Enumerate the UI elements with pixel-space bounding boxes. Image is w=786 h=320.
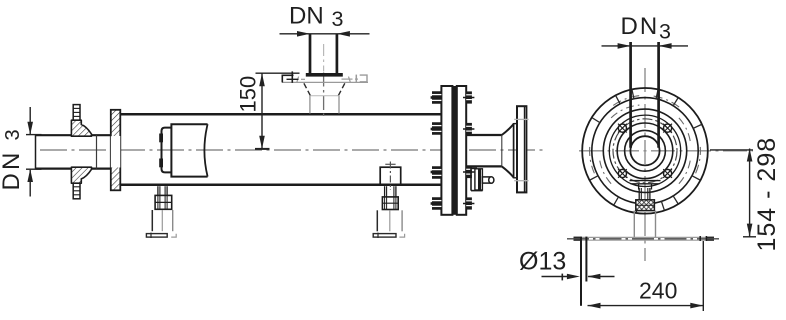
right nozzle pipe N3 — [466, 135, 502, 166]
drain fitting plug — [482, 177, 494, 184]
baseplate hole left (O13) — [581, 237, 586, 306]
svg-text:DN: DN — [0, 149, 25, 190]
svg-text:DN: DN — [289, 3, 324, 30]
flange bolt row 4 right nut — [463, 197, 474, 209]
svg-text:154 - 298: 154 - 298 — [753, 137, 781, 252]
label DN 3 (left, rotated) — [0, 129, 25, 190]
flange bolt row 3 left nut — [431, 166, 442, 179]
svg-text:3: 3 — [2, 129, 24, 140]
girth flange gasket joint — [452, 86, 456, 215]
svg-text:3: 3 — [332, 7, 344, 31]
flange bolt row 2 left nut — [431, 122, 442, 135]
top nozzle centerline — [323, 44, 325, 120]
label 154 - 298 (rotated) — [753, 137, 781, 252]
bolt hole bottom-left — [618, 169, 627, 178]
phantom circle r55 (partial arcs) — [590, 96, 701, 174]
support leg 2 foot — [373, 233, 404, 238]
end view top nozzle pipe — [631, 42, 659, 148]
label DN 3 (end view) — [621, 13, 672, 44]
top nozzle neck (phantom) — [310, 96, 339, 114]
vessel shell bottom wall — [118, 184, 442, 187]
drain fitting bracket — [471, 166, 483, 190]
svg-text:DN: DN — [621, 13, 660, 40]
baseplate — [567, 237, 721, 241]
flange bolt row 2 right nut — [463, 123, 474, 135]
inner circle 2 — [625, 130, 666, 171]
dimension DN 3 (top nozzle) — [280, 31, 370, 37]
internal insert body — [171, 124, 207, 176]
end view vertical centerline — [644, 68, 646, 261]
top nozzle hub cone (hidden lines) — [304, 83, 345, 95]
phantom circle r45 (partial arcs) — [599, 105, 690, 184]
girth flange pair left plate — [441, 86, 452, 215]
end view leg tube — [634, 211, 655, 237]
left nozzle pipe N1 — [36, 134, 112, 169]
dimension DN 3 (left nozzle) — [26, 107, 42, 197]
end view leg nut (cross hatched) — [636, 200, 655, 211]
hub circle — [603, 109, 686, 192]
label DN 3 (top nozzle) — [289, 3, 344, 32]
flange bolt row 1 left nut — [431, 91, 442, 104]
flange bolt row 1 right nut — [463, 91, 474, 103]
label 240 — [639, 277, 677, 303]
dimension DN 3 (end view) — [602, 43, 689, 49]
right nozzle hub cone — [502, 123, 517, 178]
internal insert left cap — [162, 128, 172, 173]
girth flange pair right plate — [457, 86, 466, 215]
support leg 2 adjuster nut — [382, 197, 398, 210]
top nozzle pipe N2 — [310, 34, 337, 73]
support leg 1 adjuster nut — [155, 195, 172, 209]
bolt boss circle — [609, 115, 680, 186]
dimension 154 - 298 — [710, 149, 756, 237]
svg-text:Ø13: Ø13 — [519, 248, 566, 276]
dimension 150 — [255, 73, 300, 149]
bottom connection chords — [630, 181, 661, 190]
internal insert left cap tabs — [159, 134, 163, 168]
support leg 1 tube — [152, 210, 172, 231]
top nozzle flange bolt (right, phantom) — [342, 75, 368, 83]
serration tick marks — [590, 90, 702, 213]
support leg 1 stud — [158, 186, 167, 195]
top nozzle flange plate — [282, 73, 368, 82]
end view horizontal centerline — [579, 150, 753, 152]
support leg 2 tube — [377, 210, 402, 231]
label O13 — [519, 248, 566, 276]
label 150 (rotated) — [236, 76, 261, 113]
flange outer circle — [582, 88, 708, 214]
end view leg stud — [639, 188, 650, 200]
dimension O13 — [542, 274, 615, 281]
baseplate hole right — [700, 236, 706, 241]
bolt hole top-left — [618, 124, 627, 133]
support leg 1 foot — [146, 233, 176, 238]
svg-text:150: 150 — [236, 76, 261, 113]
vessel left end plate (hatched) — [111, 110, 121, 191]
drain fitting plate — [475, 169, 483, 190]
inner circle 1 — [617, 123, 673, 179]
svg-text:3: 3 — [659, 20, 671, 44]
flange raised ring circle — [592, 98, 698, 204]
left nozzle flange (hatched, with studs) — [71, 105, 91, 199]
bolt hole bottom-right — [663, 169, 672, 178]
bolt hole top-right — [663, 124, 672, 133]
flange bolt row 3 right nut — [463, 166, 474, 178]
flange bolt row 4 left nut — [431, 197, 442, 210]
center bore circle — [630, 136, 659, 165]
support leg 2 stud — [385, 186, 396, 197]
top nozzle flange bolt (left, section) — [282, 71, 306, 82]
bottom drain boss — [380, 162, 401, 191]
vessel shell top wall — [118, 113, 442, 116]
vessel centerline (side view) — [40, 149, 546, 151]
right nozzle end flange — [514, 106, 528, 192]
svg-text:240: 240 — [639, 277, 677, 303]
dimension 240 — [588, 241, 704, 311]
bolt circle (dash-dot) — [613, 119, 677, 183]
